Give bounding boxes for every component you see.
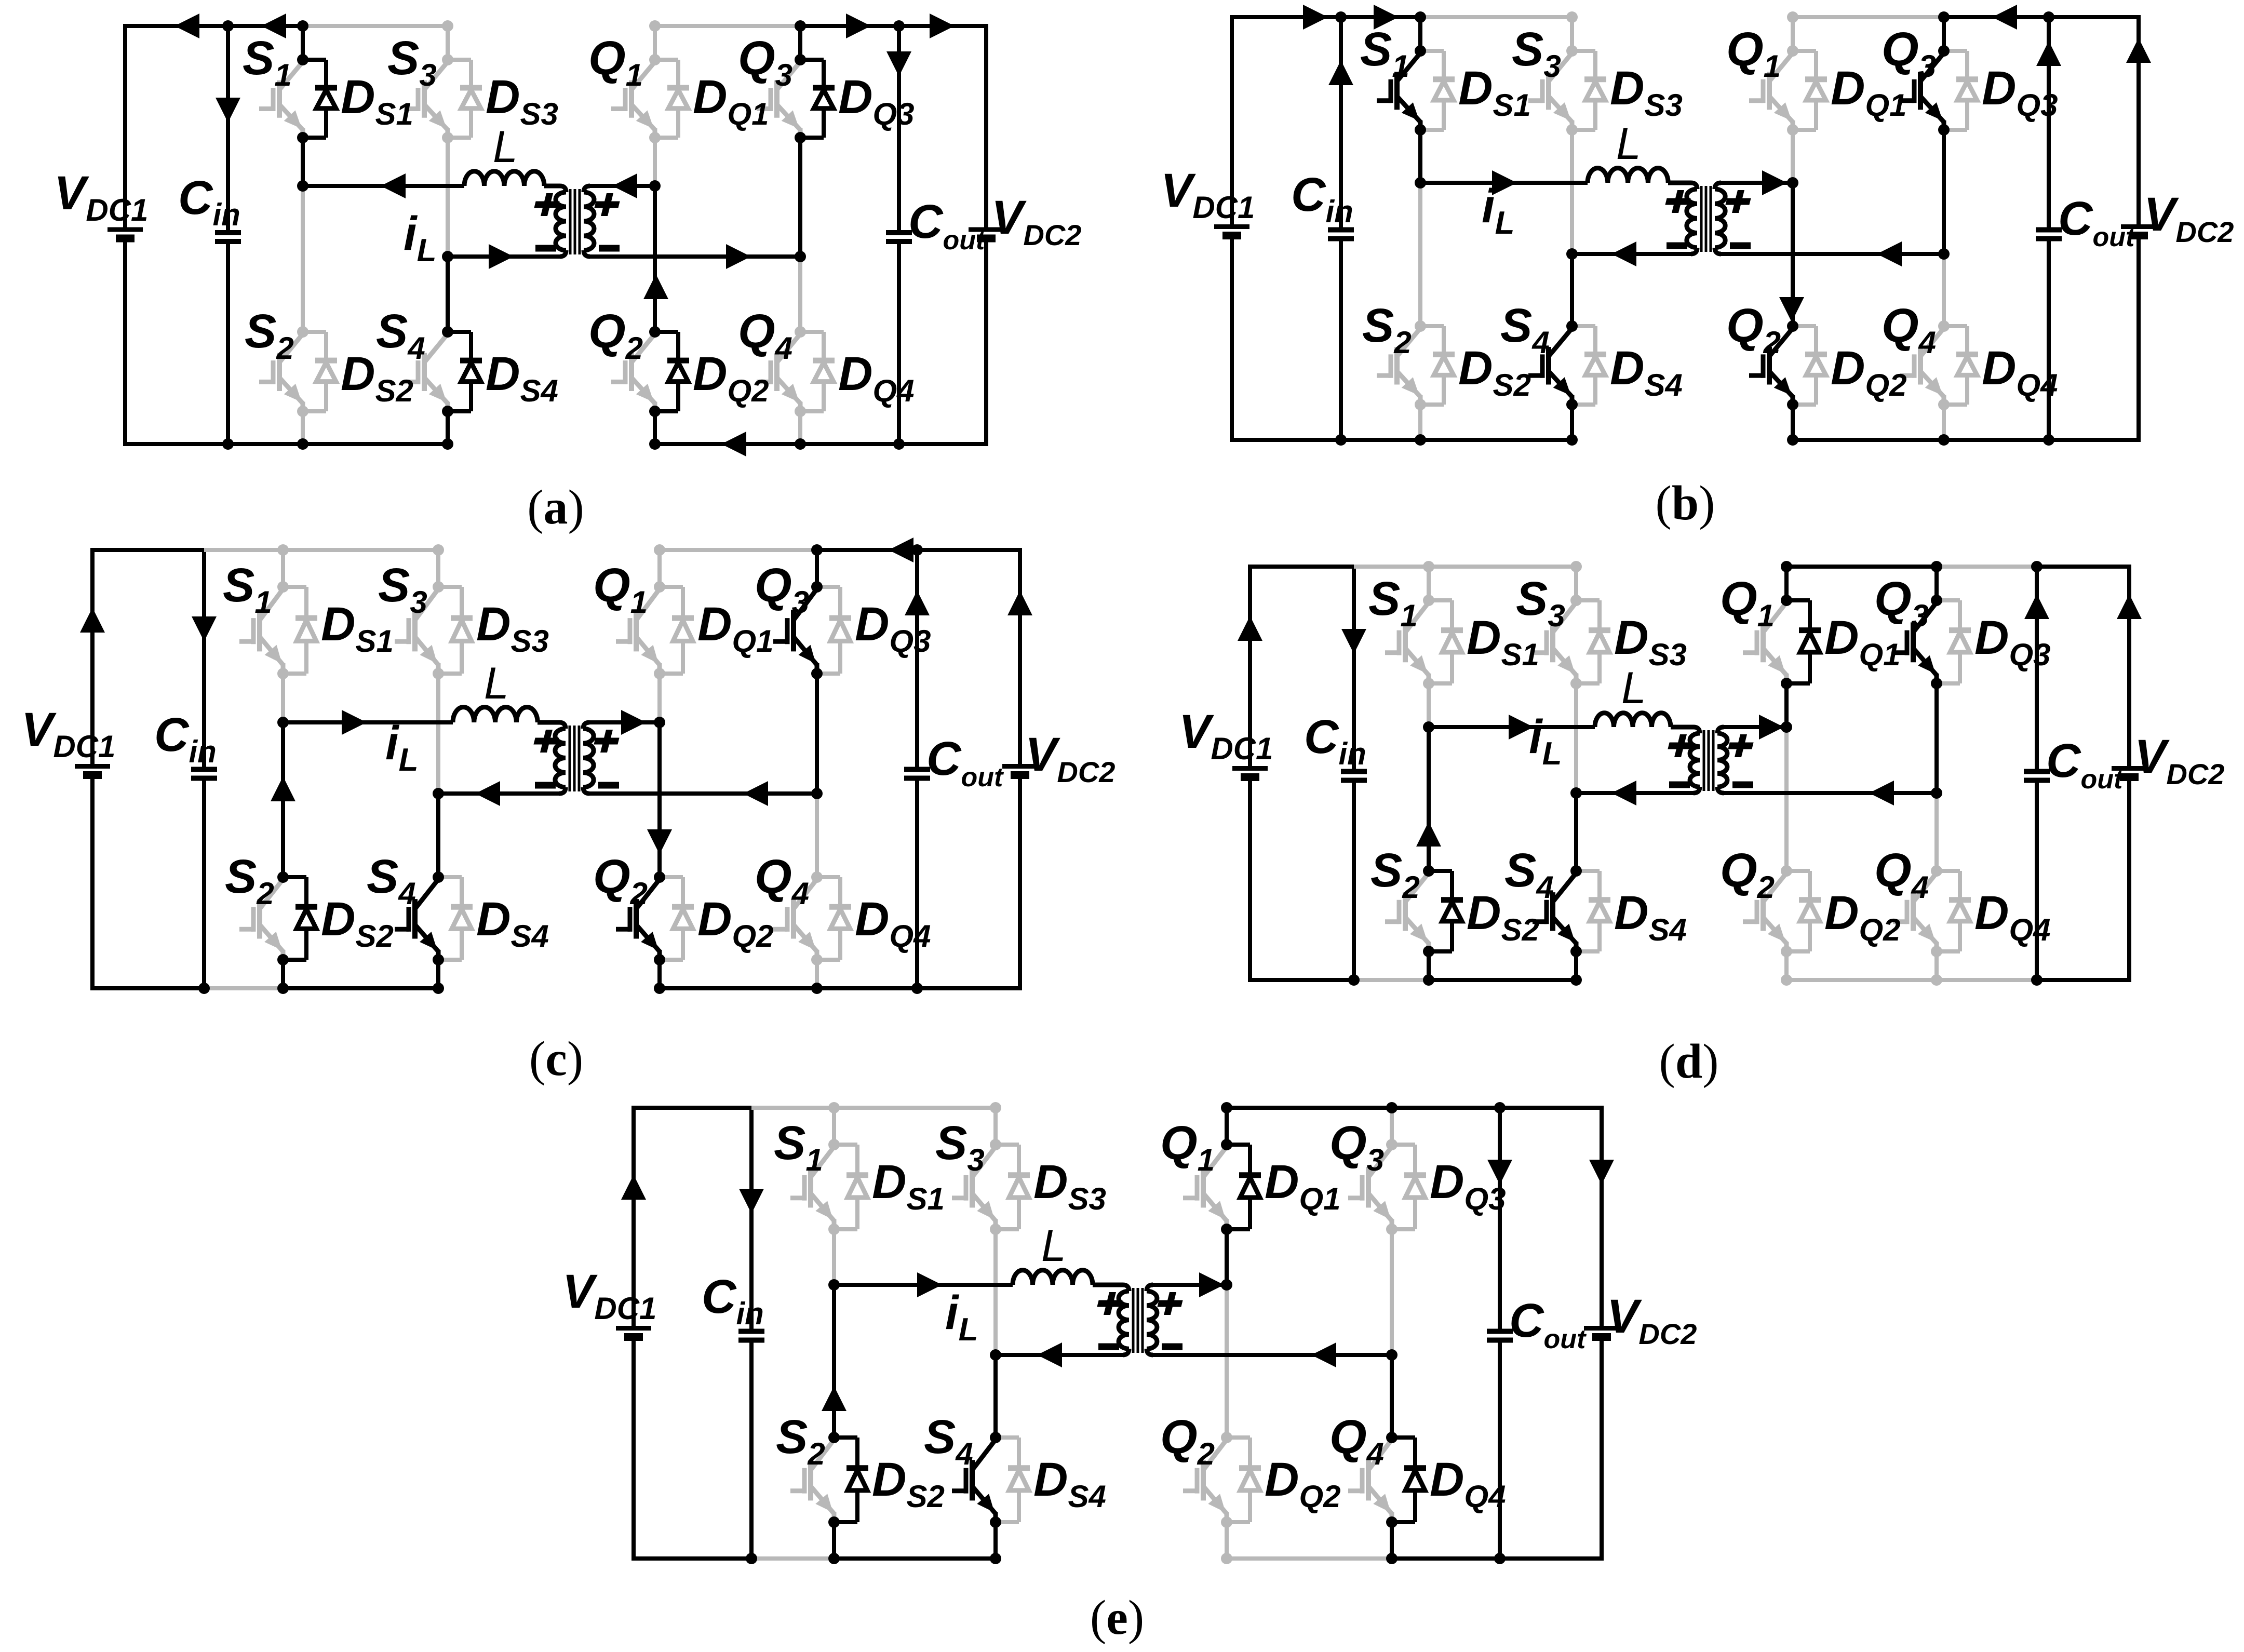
svg-text:(d): (d) xyxy=(1659,1035,1719,1089)
svg-text:(e): (e) xyxy=(1090,1591,1144,1645)
svg-text:L: L xyxy=(1621,663,1646,713)
svg-text:(a): (a) xyxy=(527,480,584,534)
svg-text:L: L xyxy=(484,659,509,708)
svg-text:(b): (b) xyxy=(1656,476,1715,530)
svg-text:(c): (c) xyxy=(529,1032,583,1086)
svg-text:L: L xyxy=(1041,1221,1066,1271)
svg-text:L: L xyxy=(1616,119,1641,169)
svg-text:L: L xyxy=(493,122,518,172)
